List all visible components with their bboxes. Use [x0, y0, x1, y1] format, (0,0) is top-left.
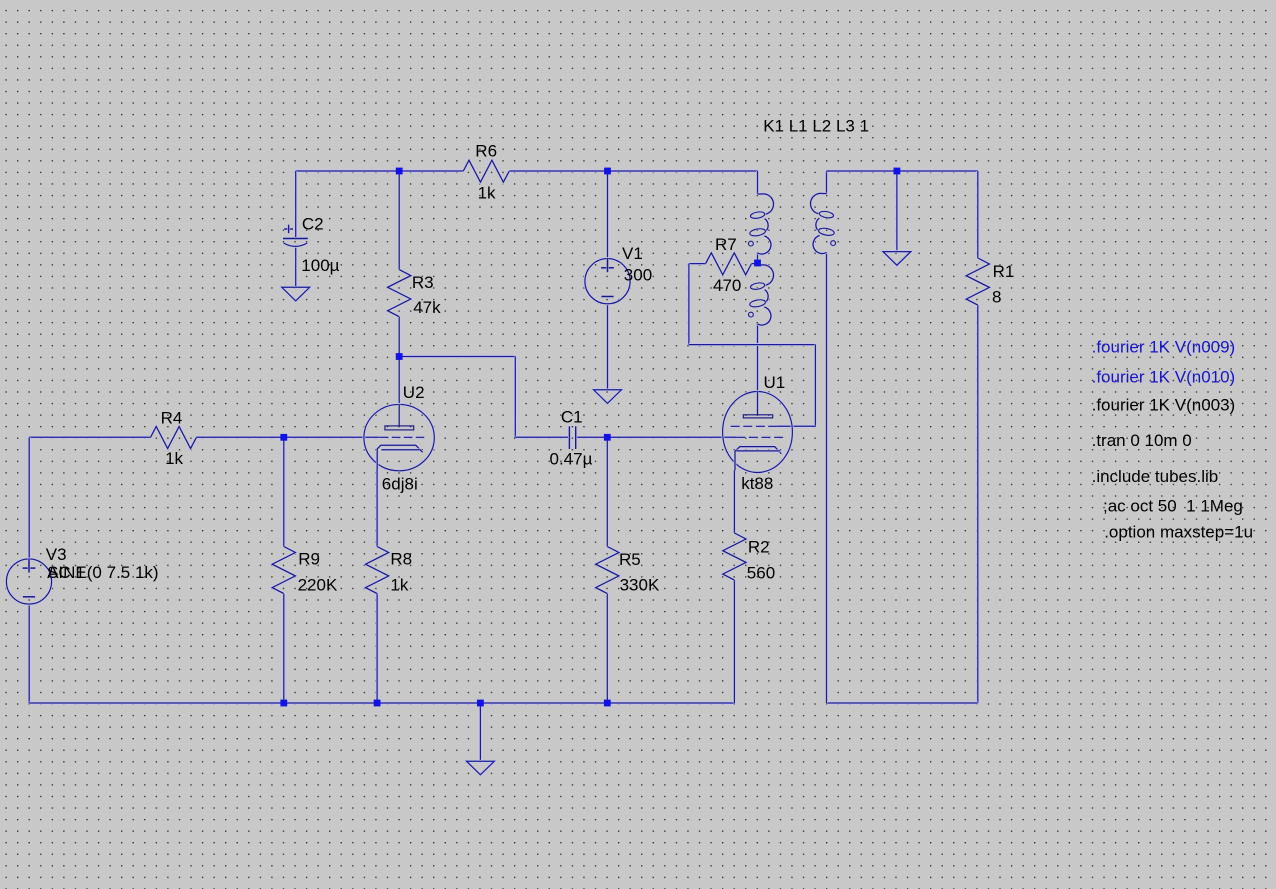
svg-text:330K: 330K	[620, 575, 660, 594]
label R3	[412, 273, 434, 292]
wire R7 loop across	[689, 343, 816, 346]
label R5	[619, 550, 641, 569]
ground under V1	[594, 390, 622, 404]
directive fourier n010	[1092, 368, 1236, 387]
wire top node to R1	[897, 170, 978, 173]
node top-V1	[604, 168, 611, 175]
svg-text:1k: 1k	[165, 449, 183, 468]
label R1	[993, 262, 1015, 281]
resistor R6	[463, 160, 509, 182]
voltage source V3	[6, 559, 51, 604]
svg-text:kt88: kt88	[741, 474, 773, 493]
wire U2 cathode to R8	[376, 469, 379, 547]
svg-text:R7: R7	[715, 235, 737, 254]
wire L2 to U1 plate	[756, 324, 759, 392]
node R3-U2	[396, 353, 403, 360]
wire screen grid lead	[777, 425, 816, 428]
value R1 8	[992, 287, 1001, 306]
svg-text:R3: R3	[412, 273, 434, 292]
directive option	[1104, 522, 1253, 541]
value R9 220K	[298, 575, 338, 594]
svg-text:560: 560	[747, 564, 775, 583]
label C1	[561, 407, 583, 426]
wire C2 top lead	[294, 171, 297, 239]
directive fourier n009	[1092, 337, 1236, 356]
wire R2 bottom lead	[733, 580, 736, 703]
directive fourier n003	[1092, 396, 1236, 415]
svg-text:;ac oct 50 1 1Meg: ;ac oct 50 1 1Meg	[1103, 496, 1243, 515]
wire R7 left lead	[689, 262, 706, 265]
wire R4 to U2 grid	[196, 436, 379, 439]
wire R1 top lead	[976, 171, 979, 258]
svg-text:R4: R4	[161, 409, 183, 428]
svg-text:.fourier 1K V(n010): .fourier 1K V(n010)	[1092, 368, 1236, 387]
wire node to U2 plate	[398, 357, 401, 405]
label V3	[46, 545, 67, 564]
directive ac oct	[1103, 496, 1243, 515]
wire R5 bottom lead	[606, 594, 609, 703]
directive K1 coupling	[763, 117, 869, 136]
resistor R4	[151, 427, 197, 449]
label C2	[302, 215, 324, 234]
label V1	[622, 244, 643, 263]
value U1 kt88	[741, 474, 773, 493]
wire U1 cathode to R2	[733, 471, 736, 534]
svg-text:U2: U2	[403, 383, 425, 402]
value U2 6dj8i	[382, 474, 418, 493]
svg-text:R6: R6	[475, 141, 497, 160]
svg-text:R2: R2	[748, 538, 770, 557]
label R2	[748, 538, 770, 557]
svg-text:.include tubes.lib: .include tubes.lib	[1092, 467, 1219, 486]
resistor R7	[706, 253, 752, 275]
resistor R5	[596, 547, 619, 594]
svg-text:47k: 47k	[413, 298, 441, 317]
wire C2 to ground	[294, 246, 297, 287]
wire V3 top lead	[28, 437, 31, 559]
wire V1 to ground	[606, 304, 609, 390]
svg-text:C2: C2	[302, 215, 324, 234]
wire L3 to top node	[827, 170, 897, 173]
svg-text:R1: R1	[993, 262, 1015, 281]
resistor R8	[366, 547, 389, 594]
wire C1 right to node	[576, 436, 608, 439]
value R5 330K	[620, 575, 660, 594]
wire ground stub bottom	[479, 703, 482, 761]
tube U1	[723, 392, 793, 473]
wire L3 bottom lead	[825, 253, 828, 704]
node top-sec	[894, 168, 901, 175]
value R3 47k	[413, 298, 441, 317]
wire bottom rail	[29, 702, 734, 705]
wire L3 top lead	[825, 171, 828, 194]
svg-text:.tran 0 10m 0: .tran 0 10m 0	[1092, 431, 1192, 450]
value C2 100u	[301, 256, 339, 275]
node bottom-gnd	[477, 700, 484, 707]
svg-text:.fourier 1K V(n009): .fourier 1K V(n009)	[1092, 337, 1236, 356]
svg-text:V3: V3	[46, 545, 67, 564]
wire R3 bottom to node	[398, 317, 401, 357]
wire R8 bottom lead	[376, 594, 379, 703]
value R8 1k	[390, 575, 408, 594]
node R4-R9	[280, 434, 287, 441]
inductor L3	[810, 193, 835, 253]
svg-text:U1: U1	[764, 373, 786, 392]
wire R7 right lead	[751, 262, 757, 265]
wire top rail left	[296, 170, 464, 173]
wire R7 loop to screen	[814, 345, 817, 427]
wire R9 bottom lead	[282, 594, 285, 703]
value R2 560	[747, 564, 775, 583]
wire bottom rail sec	[827, 702, 978, 705]
node bottom-R9	[280, 700, 287, 707]
svg-text:0.47µ: 0.47µ	[550, 450, 593, 469]
svg-text:.fourier 1K V(n003): .fourier 1K V(n003)	[1092, 396, 1236, 415]
wire down to C1 row	[514, 357, 517, 438]
wire V3 bottom lead	[28, 604, 31, 703]
svg-text:300: 300	[624, 265, 652, 284]
value V1 300	[624, 265, 652, 284]
svg-text:1k: 1k	[478, 184, 496, 203]
inductor L1	[749, 194, 774, 254]
capacitor C1	[569, 426, 575, 449]
svg-text:100µ: 100µ	[301, 256, 339, 275]
wire R3 top lead	[398, 171, 401, 270]
svg-text:R8: R8	[390, 550, 412, 569]
svg-text:470: 470	[713, 276, 741, 295]
wire R9 top lead	[282, 437, 285, 546]
svg-text:1k: 1k	[390, 575, 408, 594]
directive include	[1092, 467, 1219, 486]
node L1-L2-R7	[754, 260, 761, 267]
wire node to U1 grid	[607, 436, 738, 439]
svg-text:R9: R9	[298, 550, 320, 569]
value V3 AC 1	[47, 563, 85, 582]
svg-text:V1: V1	[622, 244, 643, 263]
svg-text:6dj8i: 6dj8i	[382, 474, 418, 493]
wire node row right	[399, 355, 515, 358]
resistor R9	[272, 547, 295, 594]
value R7 470	[713, 276, 741, 295]
node bottom-R8	[374, 700, 381, 707]
wire to C1 left plate	[515, 436, 569, 439]
ground secondary	[883, 252, 911, 266]
ground bottom rail	[467, 761, 495, 775]
label R4	[161, 409, 183, 428]
svg-text:C1: C1	[561, 407, 583, 426]
node bottom-R5	[604, 700, 611, 707]
wire R4 row left	[29, 436, 150, 439]
value R4 1k	[165, 449, 183, 468]
svg-text:.option maxstep=1u: .option maxstep=1u	[1104, 522, 1253, 541]
svg-text:8: 8	[992, 287, 1001, 306]
label U2	[403, 383, 425, 402]
wire V1 top lead	[606, 171, 609, 259]
resistor R1	[966, 258, 989, 305]
wire R1 bottom lead	[976, 305, 979, 703]
svg-text:R5: R5	[619, 550, 641, 569]
tube U2	[364, 404, 434, 470]
resistor R3	[388, 270, 411, 317]
wire top rail right	[509, 170, 757, 173]
wire L1 top lead	[756, 171, 759, 194]
ground under C2	[282, 287, 310, 301]
svg-text:220K: 220K	[298, 575, 338, 594]
label R6	[475, 141, 497, 160]
wire ground stub sec	[895, 171, 898, 252]
value V3 SINE	[47, 563, 159, 582]
svg-text:K1 L1 L2 L3 1: K1 L1 L2 L3 1	[763, 117, 869, 136]
value R6 1k	[478, 184, 496, 203]
resistor R2	[723, 533, 746, 580]
wire R5 top lead	[606, 437, 609, 546]
label R9	[298, 550, 320, 569]
directive tran	[1092, 431, 1192, 450]
node top-R3	[396, 168, 403, 175]
voltage source V1	[585, 259, 630, 304]
value C1 0.47u	[550, 450, 593, 469]
label R8	[390, 550, 412, 569]
wire R7 loop down	[687, 264, 690, 345]
wire L1 to junction	[756, 253, 759, 265]
svg-text:SINE(0 7.5 1k): SINE(0 7.5 1k)	[47, 563, 159, 582]
capacitor C2	[283, 225, 308, 247]
label U1	[764, 373, 786, 392]
node C1-R5-U1	[604, 434, 611, 441]
inductor L2	[749, 265, 774, 325]
label R7	[715, 235, 737, 254]
